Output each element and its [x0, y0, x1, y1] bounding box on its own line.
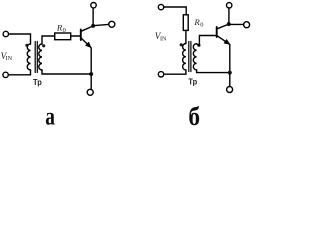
terminal top: [91, 2, 96, 7]
transformer Tp secondary winding: [193, 44, 196, 70]
transformer core: [35, 42, 37, 73]
wire resistor to base: [71, 35, 80, 37]
terminal bottom: [227, 87, 233, 93]
transistor VT2 base bar: [216, 27, 218, 37]
svg-text:0: 0: [63, 27, 66, 34]
terminal bottom: [87, 89, 93, 95]
wire to resistor: [164, 7, 186, 15]
wire primary bottom to input: [8, 70, 30, 75]
terminal input bottom-left: [3, 72, 8, 77]
terminal input top-left: [3, 31, 8, 36]
resistor R0: [183, 15, 188, 31]
wire: [9, 34, 31, 44]
terminal right: [244, 22, 250, 28]
wire resistor to primary: [185, 30, 187, 43]
transistor VT1 base bar: [80, 30, 82, 41]
resistor R0: [55, 33, 71, 40]
svg-text:Тр: Тр: [188, 76, 197, 86]
svg-text:IN: IN: [160, 35, 167, 42]
transformer core: [189, 42, 191, 72]
label R0: [193, 17, 203, 28]
collector lead: [217, 24, 229, 29]
node collector junction: [227, 22, 231, 26]
transformer Tp primary winding: [183, 44, 186, 70]
wire collector to top terminal: [92, 8, 94, 26]
node collector junction: [91, 24, 95, 28]
terminal top: [227, 3, 232, 8]
wire collector node to right terminal: [93, 24, 109, 25]
svg-text:IN: IN: [6, 55, 13, 62]
wire collector node to right terminal: [229, 23, 244, 25]
node emitter junction: [89, 72, 93, 76]
terminal input bottom-left: [158, 72, 163, 77]
svg-text:а: а: [45, 102, 55, 130]
terminal right: [109, 21, 115, 27]
wire secondary top to resistor: [42, 36, 55, 44]
transformer Tp primary winding: [27, 44, 30, 70]
wire secondary bottom to emitter node: [197, 70, 230, 73]
primary polarity dot: [25, 44, 28, 47]
collector lead: [81, 26, 93, 31]
secondary polarity dot: [197, 44, 200, 47]
wire collector to top terminal: [228, 8, 230, 24]
terminal input top-left: [158, 4, 163, 9]
emitter arrow: [224, 39, 230, 44]
svg-text:б: б: [188, 103, 200, 131]
emitter lead: [217, 36, 230, 73]
node emitter junction: [228, 71, 232, 75]
svg-text:Тр: Тр: [33, 77, 42, 87]
emitter arrow: [85, 42, 91, 48]
label R0: [56, 23, 66, 34]
label VIN: [1, 51, 13, 62]
wire primary bottom to input: [164, 70, 186, 74]
primary polarity dot: [180, 43, 183, 46]
wire secondary top to base: [197, 36, 216, 46]
secondary polarity dot: [42, 44, 45, 47]
wire emitter node to bottom terminal: [90, 74, 92, 89]
label VIN: [155, 31, 167, 42]
wire emitter node to bottom terminal: [229, 73, 231, 87]
emitter lead: [81, 38, 91, 74]
wire secondary bottom to emitter node: [42, 70, 91, 74]
transformer Tp secondary winding: [39, 44, 42, 70]
svg-text:0: 0: [200, 21, 203, 28]
